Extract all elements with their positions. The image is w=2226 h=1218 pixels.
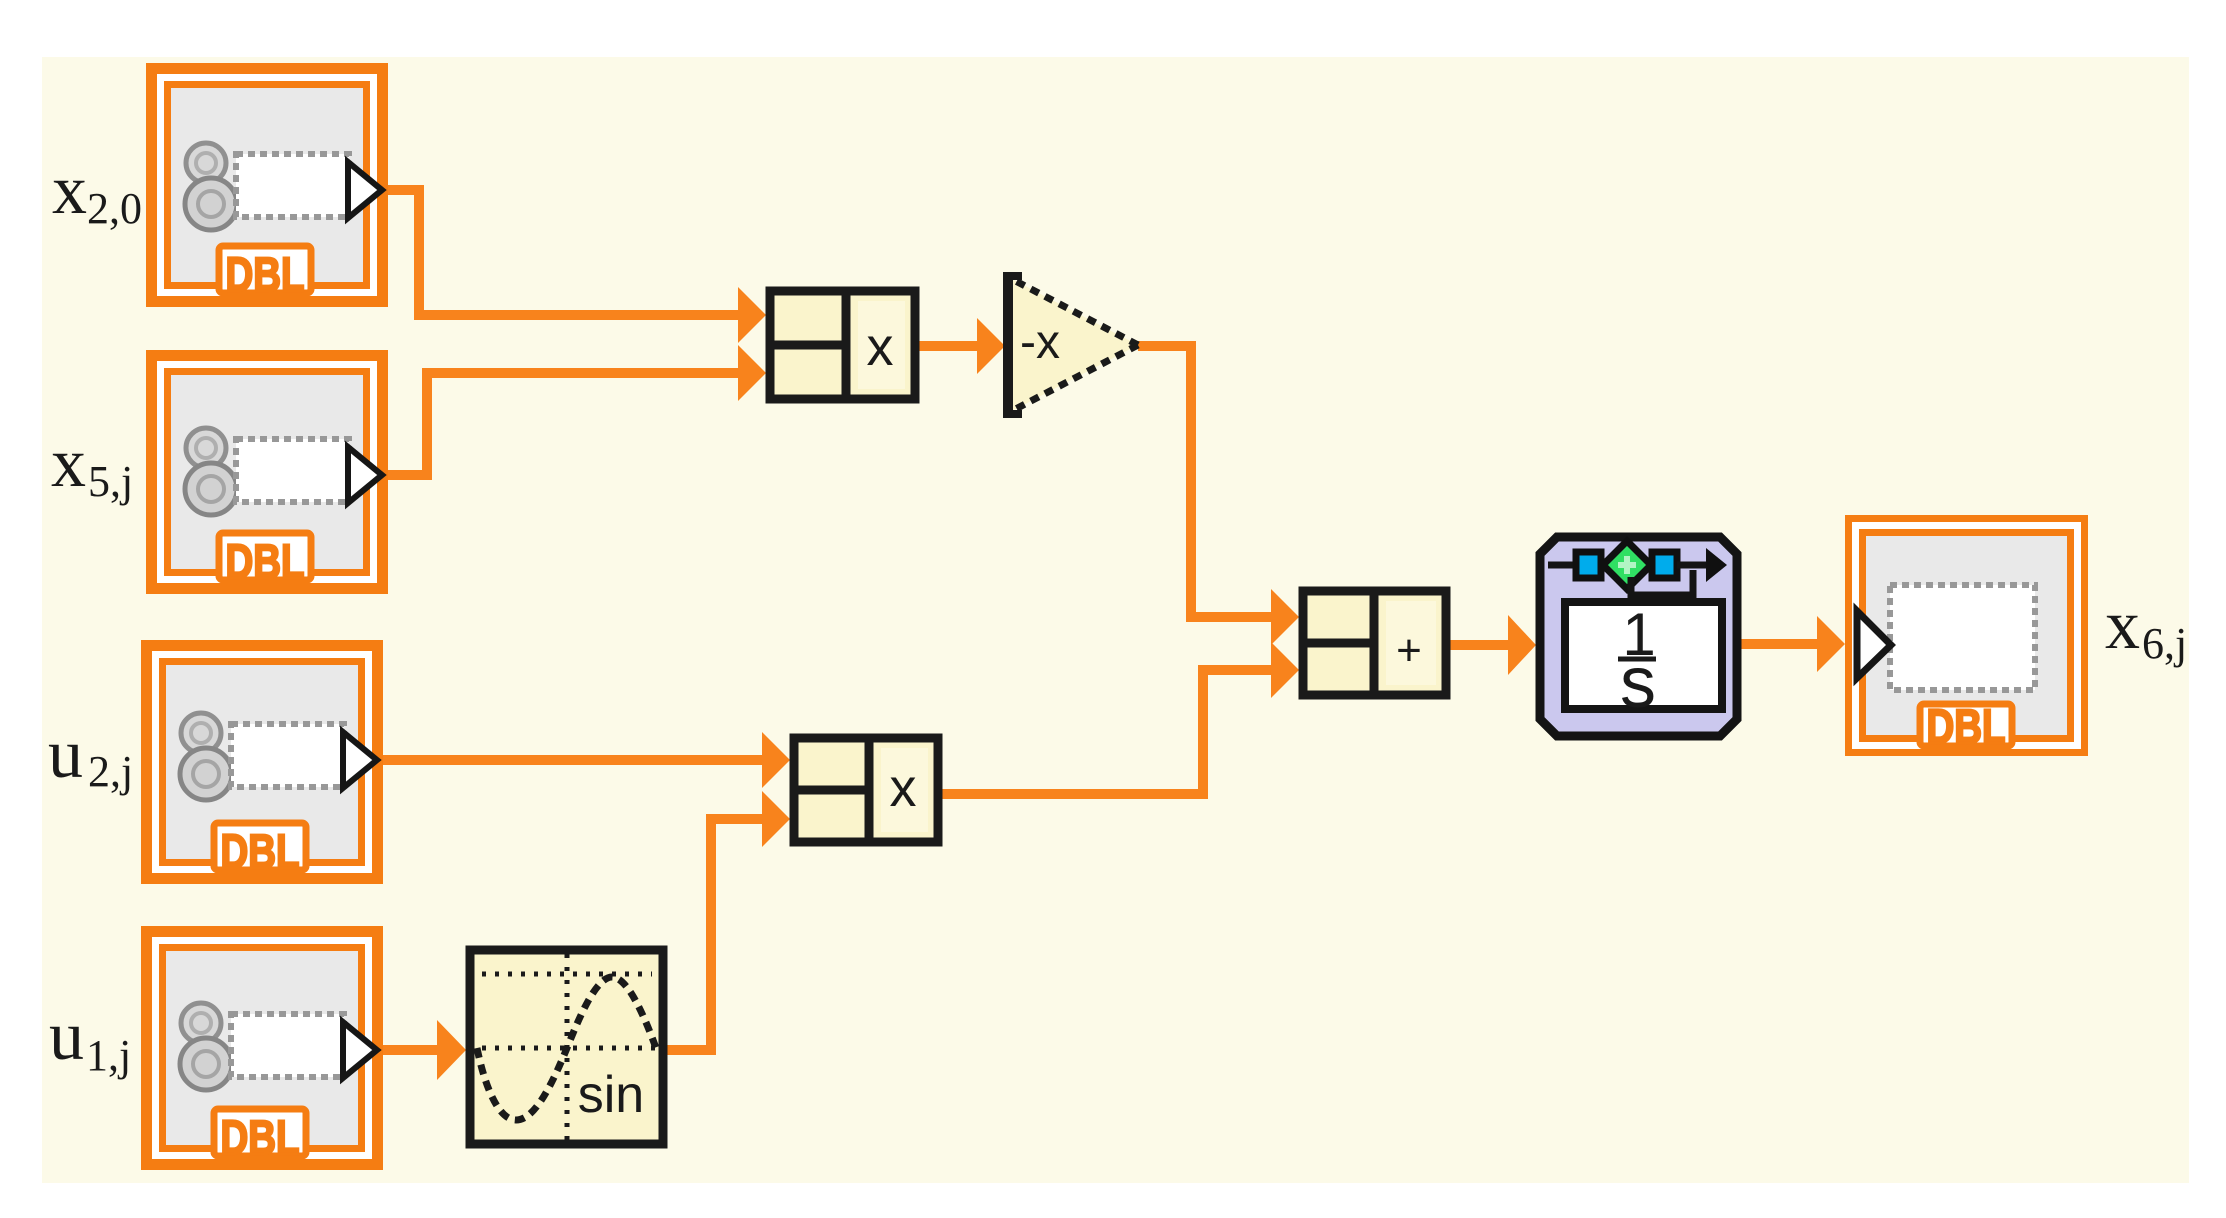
- svg-text:DBL: DBL: [1927, 701, 2006, 754]
- svg-text:+: +: [1396, 626, 1422, 675]
- svg-text:s: s: [1620, 643, 1656, 723]
- svg-text:x: x: [890, 758, 917, 818]
- svg-text:DBL: DBL: [221, 826, 300, 879]
- svg-text:DBL: DBL: [226, 536, 305, 589]
- svg-text:1,j: 1,j: [86, 1031, 131, 1080]
- svg-text:-x: -x: [1020, 316, 1060, 369]
- svg-text:sin: sin: [578, 1066, 644, 1124]
- svg-text:x: x: [867, 317, 894, 377]
- svg-text:x: x: [51, 425, 86, 502]
- svg-text:u: u: [48, 716, 83, 793]
- svg-text:2,0: 2,0: [87, 184, 142, 233]
- svg-text:5,j: 5,j: [88, 457, 133, 506]
- svg-text:DBL: DBL: [226, 249, 305, 302]
- svg-text:DBL: DBL: [221, 1112, 300, 1165]
- svg-text:6,j: 6,j: [2142, 619, 2187, 668]
- svg-text:x: x: [52, 152, 87, 229]
- svg-text:2,j: 2,j: [88, 747, 133, 796]
- svg-text:u: u: [49, 998, 84, 1075]
- svg-text:x: x: [2105, 587, 2140, 664]
